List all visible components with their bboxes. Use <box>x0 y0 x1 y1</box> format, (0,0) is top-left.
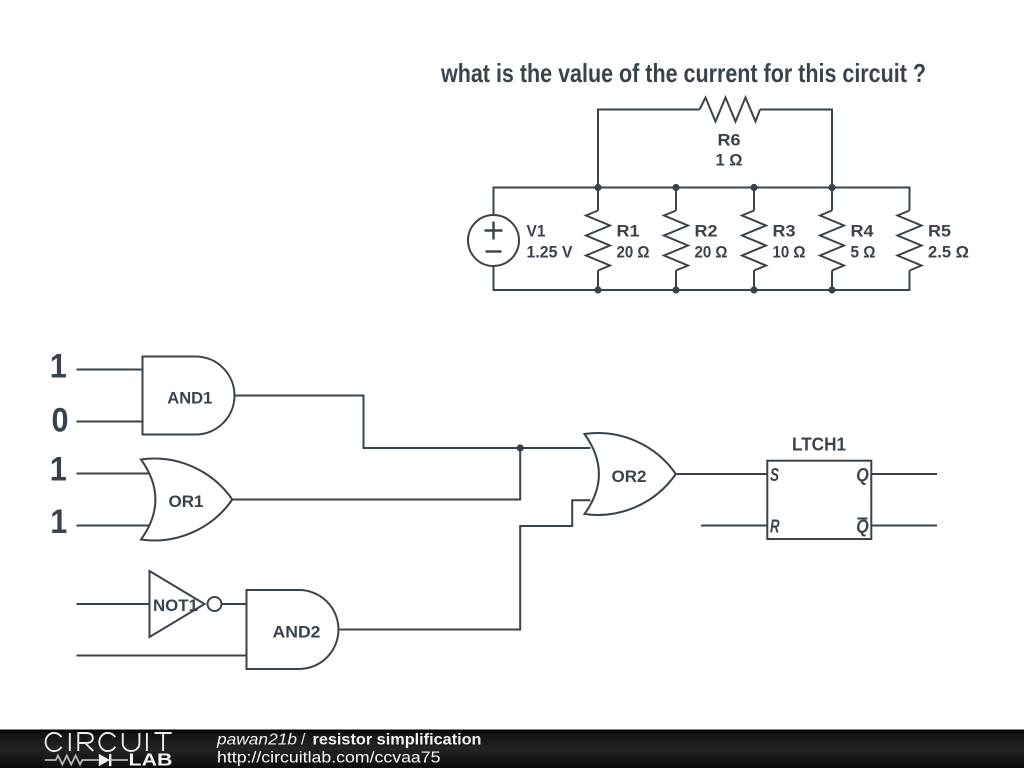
svg-text:R5: R5 <box>928 223 951 241</box>
gate NOT1 <box>150 571 205 637</box>
node dot bottom rail R2 <box>672 286 679 293</box>
wire AND2 output to OR2 input B <box>339 500 591 629</box>
wire AND1 input 1 <box>77 369 143 371</box>
wire OR2 output to LTCH1 S <box>676 473 768 475</box>
logo CIRCUIT <box>46 733 172 751</box>
LTCH1 Qbar overline <box>858 518 868 520</box>
svg-text:20 Ω: 20 Ω <box>695 244 728 262</box>
svg-text:Q: Q <box>856 517 869 537</box>
wire top rail node A <box>493 187 911 189</box>
svg-text:0: 0 <box>52 402 69 440</box>
voltage source V1 <box>468 215 519 266</box>
svg-text:OR1: OR1 <box>169 493 204 511</box>
svg-text:LTCH1: LTCH1 <box>792 435 846 455</box>
wire OR1 input 1 <box>77 473 151 475</box>
svg-text:20 Ω: 20 Ω <box>617 244 650 262</box>
svg-text:R2: R2 <box>695 223 718 241</box>
wire OR1 input 2 <box>77 525 151 527</box>
wire R6 left branch <box>598 110 700 188</box>
node dot bottom rail R4 <box>828 286 835 293</box>
gate OR1 <box>141 459 232 541</box>
svg-text:OR2: OR2 <box>612 468 647 486</box>
latch LTCH1 <box>767 461 871 539</box>
svg-text:R1: R1 <box>617 223 640 241</box>
svg-text:10 Ω: 10 Ω <box>773 244 806 262</box>
wire AND1 input 2 <box>77 421 143 423</box>
wire AND1 output to OR2 input A <box>235 396 591 449</box>
node dot top rail R3 <box>750 184 757 191</box>
svg-text:pawan21b/resistor simplificati: pawan21b/resistor simplification <box>216 731 482 748</box>
node dot C junction <box>517 444 524 451</box>
svg-text:http://circuitlab.com/ccvaa75: http://circuitlab.com/ccvaa75 <box>217 749 441 766</box>
gate OR2 <box>585 433 676 515</box>
gate AND1 <box>143 357 235 435</box>
node dot top rail R2 <box>672 184 679 191</box>
svg-text:1 Ω: 1 Ω <box>716 152 743 170</box>
wire bottom rail node B <box>493 289 911 291</box>
footer bar <box>0 730 1024 768</box>
resistor R5 <box>898 188 922 291</box>
svg-text:AND2: AND2 <box>273 624 321 642</box>
svg-text:1: 1 <box>50 503 67 541</box>
wire LTCH1 R input <box>701 525 767 527</box>
wire OR1 output to node C <box>232 448 520 500</box>
wire V1 bottom lead <box>493 266 495 290</box>
svg-text:1: 1 <box>50 451 67 489</box>
wire AND2 input 2 <box>77 655 247 657</box>
svg-text:2.5 Ω: 2.5 Ω <box>928 244 969 262</box>
resistor R4 <box>820 188 844 291</box>
node dot bottom rail R1 <box>594 286 601 293</box>
svg-text:1.25 V: 1.25 V <box>527 244 573 262</box>
wire R6 right branch <box>760 110 832 188</box>
wire LTCH1 Qbar output <box>871 525 937 527</box>
node dot top rail R1 <box>594 184 601 191</box>
resistor R1 <box>586 188 610 291</box>
svg-text:LAB: LAB <box>129 750 173 768</box>
svg-text:NOT1: NOT1 <box>153 597 198 615</box>
NOT1 bubble <box>208 597 222 611</box>
svg-text:5 Ω: 5 Ω <box>851 244 876 262</box>
svg-text:R3: R3 <box>773 223 796 241</box>
svg-text:V1: V1 <box>527 223 546 241</box>
svg-text:S: S <box>770 465 779 485</box>
svg-text:what is the value of the curre: what is the value of the current for thi… <box>440 58 926 88</box>
wire V1 top lead <box>493 188 495 216</box>
node dot bottom rail R3 <box>750 286 757 293</box>
logo wire resistor <box>45 756 99 765</box>
wire LTCH1 Q output <box>871 473 937 475</box>
wire NOT1 input <box>77 603 150 605</box>
resistor R2 <box>664 188 688 291</box>
svg-text:1: 1 <box>50 348 67 386</box>
resistor R6 <box>700 98 761 122</box>
svg-text:R4: R4 <box>851 223 875 241</box>
gate AND2 <box>247 590 339 669</box>
svg-text:Q: Q <box>856 465 869 485</box>
svg-text:AND1: AND1 <box>167 390 212 408</box>
svg-text:R6: R6 <box>718 132 741 150</box>
logo diode <box>99 754 110 766</box>
resistor R3 <box>742 188 766 291</box>
svg-text:R: R <box>770 517 780 537</box>
node dot top rail R4 <box>828 184 835 191</box>
wire NOT1 output to AND2 input 1 <box>222 603 247 605</box>
